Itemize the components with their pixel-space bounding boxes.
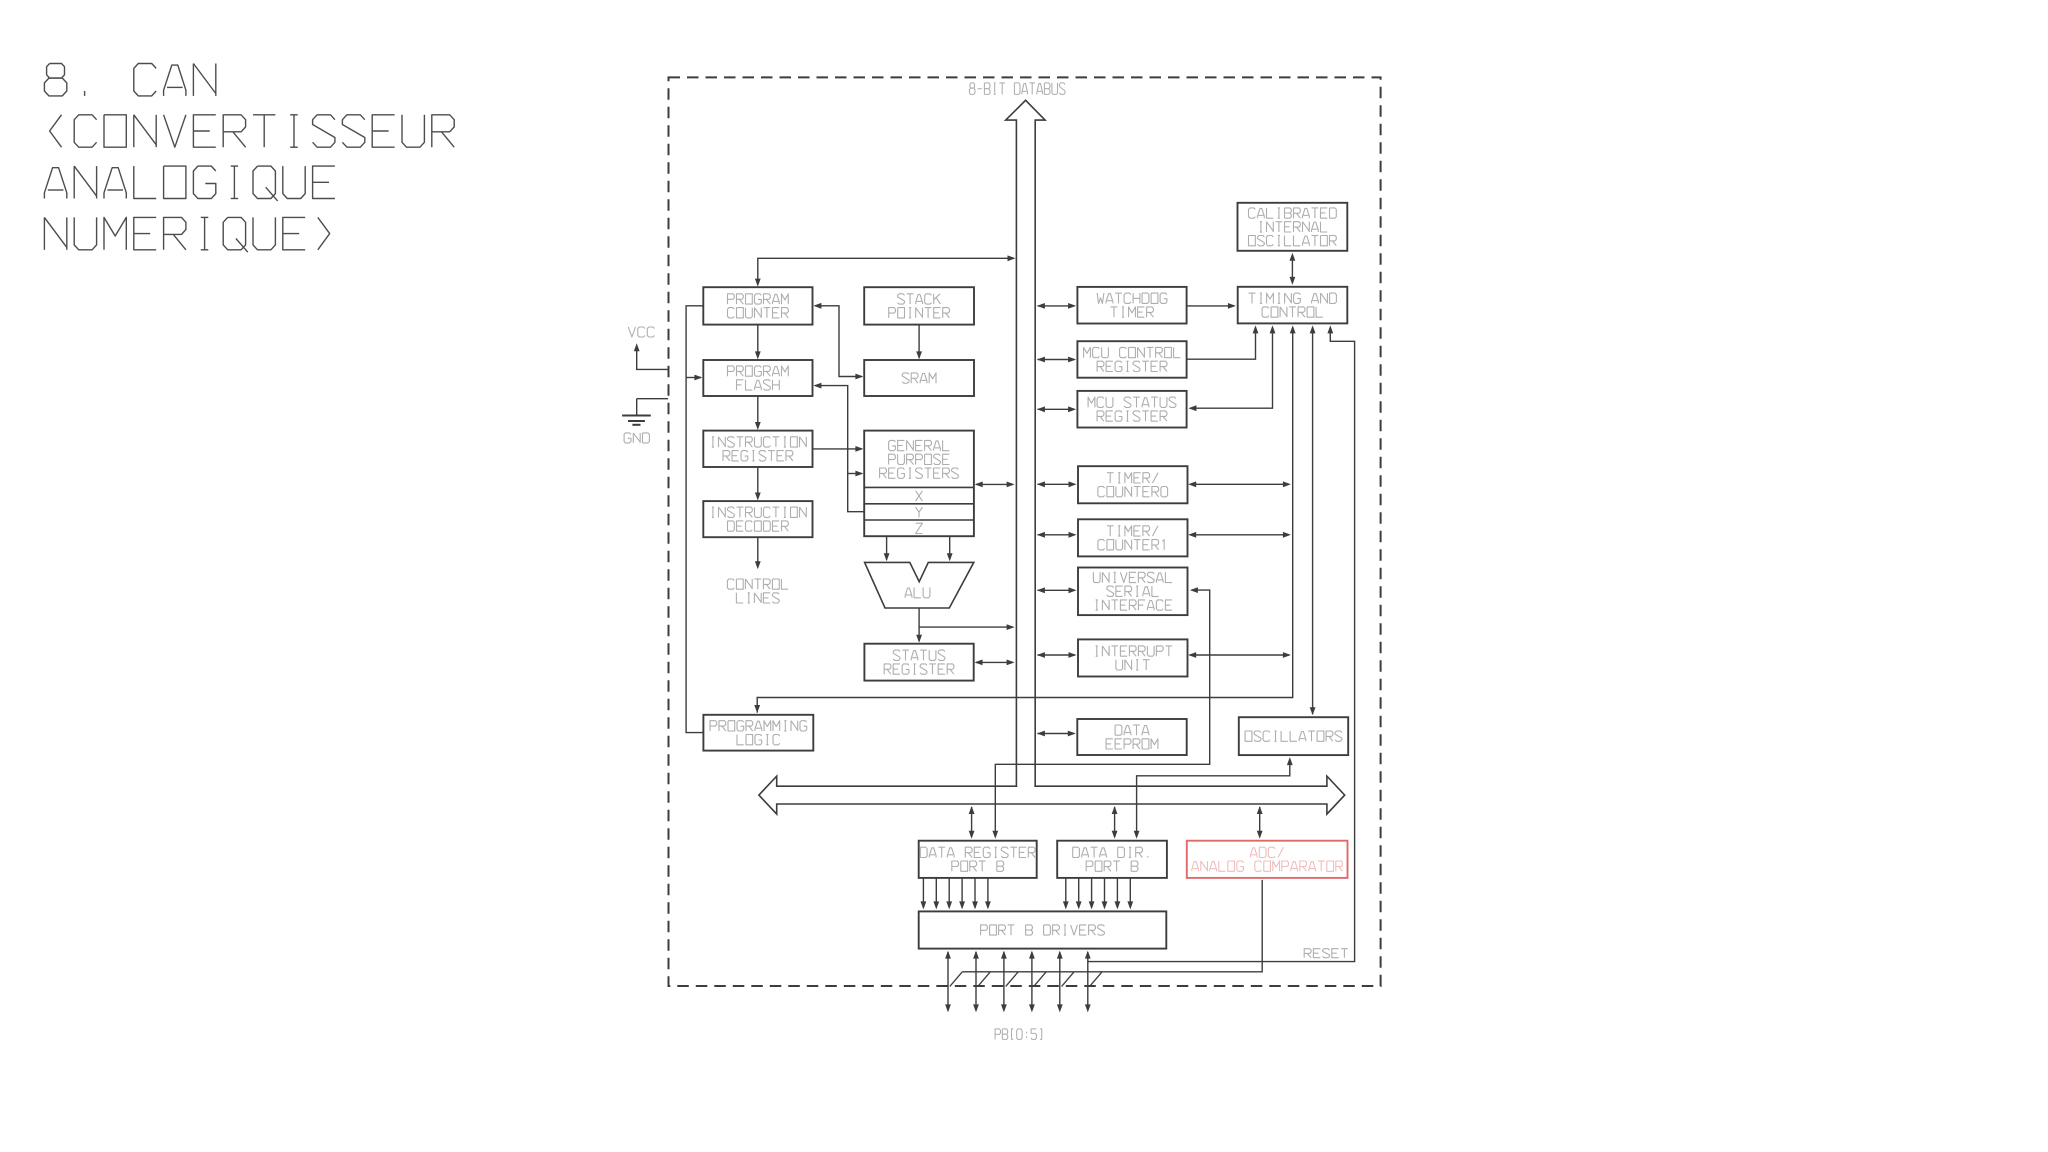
wire: databus to mcu control register — [1037, 357, 1076, 363]
block: ADC / ANALOG COMPARATOR — [1187, 841, 1348, 878]
wire: data register to drivers bit5 — [985, 878, 991, 910]
wire: data register to drivers bit1 — [933, 878, 939, 910]
wire: databus to mcu status register — [1037, 406, 1076, 412]
wire: pin PB0 slash — [950, 972, 963, 987]
title: 8. CAN (CONVERTISSEUR ANALOGIQUE NUMERIQUE) — [44, 64, 454, 253]
wire: data register to drivers bit3 — [959, 878, 965, 910]
wire: timer1 to control line — [1188, 532, 1291, 538]
wire: program counter left loop to programming logic — [686, 306, 703, 733]
block: ALU (trapezoid) — [865, 562, 974, 608]
label: PB[0:5] — [995, 1029, 1042, 1040]
chip boundary (dashed) — [669, 77, 1381, 986]
wire: databus to data eeprom — [1037, 731, 1076, 737]
block: INSTRUCTION DECODER — [703, 501, 812, 537]
wire: hbus to adc — [1257, 806, 1263, 839]
wire: gp registers Z to program flash — [813, 383, 864, 512]
wire: alu to status register — [916, 608, 922, 643]
wire: alu to databus — [919, 624, 1015, 630]
wire: port pin PB2 — [1001, 951, 1007, 1013]
block: PROGRAMMING LOGIC — [703, 715, 813, 751]
wire: program flash to instruction register — [755, 396, 761, 430]
wire: stack pointer to sram — [916, 325, 922, 360]
wire: pin PB1 slash — [978, 972, 991, 987]
wire: analog bus to adc — [962, 880, 1262, 972]
block: TIMER/COUNTER0 — [1078, 466, 1188, 503]
wire: hbus to data direction port b — [1112, 806, 1118, 839]
wire: databus to timer0 — [1037, 481, 1077, 487]
wire: program counter to program flash — [755, 325, 761, 360]
wire: instruction register to gp registers — [813, 446, 864, 452]
block: DATA REGISTER PORT B — [919, 841, 1037, 878]
wire: timer0 to control line — [1188, 481, 1291, 487]
label: 8-BIT DATABUS — [969, 83, 1065, 95]
wire: gp registers to databus — [975, 482, 1015, 488]
wire: databus to usi — [1037, 587, 1077, 593]
ground: GND — [622, 399, 668, 443]
block: SRAM — [864, 360, 974, 396]
wire: status register to databus — [975, 660, 1015, 666]
power: VCC — [628, 327, 668, 369]
wire: data direction to drivers bit3 — [1102, 878, 1108, 910]
wire: databus to timer1 — [1037, 532, 1077, 538]
wire: pin PB2 slash — [1006, 972, 1019, 987]
wire: port pin PB3 — [1029, 951, 1035, 1013]
wire: programming logic control line — [754, 325, 1295, 713]
block: DATA EEPROM — [1077, 719, 1186, 755]
block: PORT B DRIVERS — [919, 911, 1167, 948]
wire: data register to drivers bit4 — [972, 878, 978, 910]
label: RESET — [1304, 949, 1348, 958]
wire: program counter to sram — [813, 303, 863, 380]
wire: oscillators to data direction register — [1134, 757, 1293, 839]
wire: usi to port b data register — [992, 587, 1209, 839]
wire: data direction to drivers bit5 — [1127, 878, 1133, 910]
block: GENERAL PURPOSE REGISTERS (with X,Y,Z rows) — [864, 431, 974, 537]
wire: pin PB4 slash — [1062, 972, 1075, 987]
bus: horizontal data bus double arrow — [759, 776, 1345, 814]
block: INTERRUPT UNIT — [1078, 639, 1188, 676]
wire: pin PB3 slash — [1034, 972, 1047, 987]
block: UNIVERSAL SERIAL INTERFACE — [1078, 568, 1188, 616]
block: OSCILLATORS — [1239, 717, 1348, 755]
block: PROGRAM FLASH — [703, 360, 812, 396]
wire: reset net — [1088, 325, 1355, 961]
wire: data register to drivers bit2 — [946, 878, 952, 910]
block: TIMER/COUNTER1 — [1078, 519, 1188, 556]
wire: data direction to drivers bit0 — [1063, 878, 1069, 910]
bus: 8-bit databus vertical arrow — [1006, 100, 1045, 786]
wire: interrupt unit to control line — [1188, 652, 1291, 658]
wire: branch to gp registers — [848, 471, 864, 477]
wire: instruction decoder to control lines — [755, 537, 761, 569]
wire: port pin PB0 — [945, 951, 951, 1013]
wire: left loop to program flash — [686, 375, 702, 381]
wire: pin PB5 slash — [1090, 972, 1103, 987]
wire: timing to oscillators — [1310, 325, 1316, 715]
wire: gp registers to alu left — [884, 536, 890, 561]
wire: data direction to drivers bit4 — [1115, 878, 1121, 910]
wire: databus to watchdog — [1037, 303, 1076, 309]
wire: data direction to drivers bit2 — [1089, 878, 1095, 910]
block: TIMING AND CONTROL — [1238, 287, 1348, 324]
bus junction notch — [1017, 785, 1034, 787]
block: MCU STATUS REGISTER — [1077, 391, 1186, 428]
wire: calibrated oscillator to timing — [1290, 253, 1296, 285]
wire: databus to interrupt unit — [1037, 652, 1077, 658]
wire: watchdog to timing and control — [1187, 303, 1236, 309]
wire: data direction to drivers bit1 — [1076, 878, 1082, 910]
wire: instruction register to instruction decoder — [755, 467, 761, 501]
wire: port pin PB5 — [1085, 951, 1091, 1013]
wire: hbus to data register port b — [969, 806, 975, 839]
wire: port pin PB4 — [1057, 951, 1063, 1013]
block: PROGRAM COUNTER — [703, 287, 812, 324]
block: CALIBRATED INTERNAL OSCILLATOR — [1238, 203, 1348, 251]
wire: mcu control register to timing — [1187, 325, 1259, 359]
wire: gp registers to alu right — [947, 536, 953, 561]
wire: databus to program counter — [755, 255, 1016, 286]
label: CONTROL LINES — [727, 579, 788, 603]
block: STACK POINTER — [864, 287, 974, 324]
block: DATA DIR. PORT B — [1057, 841, 1167, 878]
wire: data register to drivers bit0 — [921, 878, 927, 910]
block: INSTRUCTION REGISTER — [703, 431, 812, 467]
block: WATCHDOG TIMER — [1077, 287, 1186, 324]
wire: port pin PB1 — [973, 951, 979, 1013]
block: STATUS REGISTER — [864, 644, 973, 681]
wire: timing to mcu status register — [1188, 325, 1275, 411]
block: MCU CONTROL REGISTER — [1077, 341, 1186, 378]
